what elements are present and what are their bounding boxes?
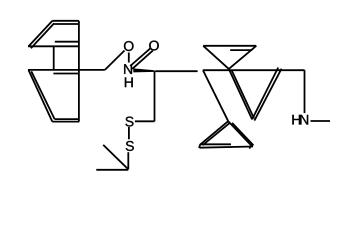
- top triangle right edge: [229, 46, 256, 69]
- N=O double bond line b: [130, 48, 151, 66]
- left ring: long horizontal: [28, 45, 79, 47]
- methyl horizontal: [96, 169, 128, 171]
- left ring: middle horizontal lower: [53, 73, 79, 75]
- left ring: left vertical: [53, 46, 55, 70]
- ring leg B outer: [229, 69, 252, 120]
- bottom triangle left edge inner: [203, 122, 231, 145]
- left ring: top horizontal inner: [54, 23, 79, 25]
- top triangle inner double line: [230, 49, 252, 51]
- bond O1-N vertical: [128, 53, 130, 63]
- bond S2 to CH: [127, 152, 129, 169]
- atom label N1: [124, 64, 132, 74]
- base right corner tick: [249, 146, 251, 148]
- left ring: top double-bond diagonal inner: [31, 23, 54, 48]
- S-S bond: [128, 127, 130, 139]
- amine label H2: [292, 115, 300, 125]
- atom label O1: [124, 41, 134, 51]
- bond CH2 to O1: [105, 51, 125, 70]
- left ring: top horizontal outer: [52, 20, 79, 22]
- N=O double bond line a: [132, 51, 153, 69]
- left ring: bottom horizontal outer: [52, 121, 79, 123]
- bottom triangle base outer: [200, 147, 254, 148]
- atom label S2: [126, 141, 134, 151]
- bold wedge bond N-C: [133, 68, 154, 72]
- ring leg B inner: [231, 70, 254, 119]
- top triangle top edge: [203, 45, 256, 47]
- chain vertical down from carbonyl C: [154, 71, 156, 121]
- atom label S1: [125, 117, 133, 127]
- ring leg C outer: [252, 68, 278, 120]
- left ring: bottom horizontal inner: [55, 118, 79, 120]
- bottom triangle left edge outer: [200, 121, 228, 145]
- left ring: bottom double diagonal inner: [31, 71, 54, 119]
- left ring: inner horizontal upper: [55, 41, 79, 43]
- N-methyl bond: [311, 120, 331, 122]
- bottom triangle base inner: [200, 143, 231, 145]
- right vertical to HN: [304, 70, 306, 113]
- long horizontal left piece: [155, 70, 197, 72]
- ring leg C inner: [254, 69, 281, 121]
- long horizontal right piece: [203, 69, 305, 71]
- top triangle left edge: [203, 46, 229, 69]
- left ring: bottom double diagonal outer: [29, 70, 53, 122]
- bottom triangle right edge outer: [228, 121, 252, 147]
- atom label H1: [125, 77, 133, 87]
- chain horizontal to S1: [135, 120, 155, 122]
- left ring: middle horizontal upper: [28, 69, 105, 71]
- bottom triangle right edge inner: [232, 123, 253, 145]
- left ring: right vertical: [78, 21, 80, 122]
- amine label N2: [300, 115, 308, 125]
- base left corner tick: [199, 144, 200, 148]
- atom label O2: [149, 41, 159, 51]
- methyl diagonal: [103, 145, 128, 169]
- ring leg A: [203, 70, 228, 121]
- left ring: top double-bond diagonal outer: [29, 21, 53, 47]
